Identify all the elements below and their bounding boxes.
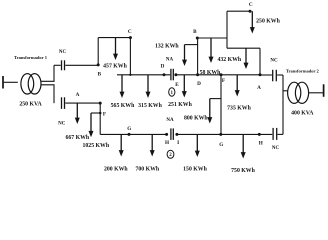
load arrow 700 KWh: [150, 134, 155, 156]
load arrow 565 KWh: [120, 75, 125, 98]
junction node A (middle bus right end): [259, 73, 262, 76]
junction node I: [175, 133, 178, 136]
wire fork upper from T1: [41, 65, 54, 81]
junction node H: [165, 133, 168, 136]
wire B up to top-left bus: [97, 38, 99, 65]
svg-text:F: F: [222, 78, 225, 84]
wire B down to middle bus: [197, 38, 199, 75]
load arrow 1025 KWh: [89, 113, 94, 137]
svg-text:150 KWh: 150 KWh: [183, 167, 207, 173]
svg-text:132 KWh: 132 KWh: [155, 44, 179, 50]
middle bus wire (net E to A): [176, 74, 260, 76]
svg-text:F: F: [103, 111, 106, 117]
wire NC to T2 vertical: [278, 133, 284, 135]
junction node G (F drop): [219, 133, 222, 136]
middle bus wire (net D): [117, 74, 170, 76]
svg-text:58 KWh: 58 KWh: [200, 70, 222, 76]
svg-text:667 KWh: 667 KWh: [65, 135, 89, 141]
top wire to node C: [227, 10, 250, 12]
load arrow 432 KWh: [244, 48, 249, 69]
wire input to transformer 1: [4, 81, 18, 83]
svg-text:NA: NA: [166, 58, 174, 63]
load arrow 667 KWh: [75, 103, 80, 124]
svg-text:D: D: [197, 81, 201, 87]
load arrow 58 KWh: [209, 38, 214, 63]
switch NA 1: [171, 69, 173, 81]
wire F down to bottom bus: [220, 75, 222, 135]
svg-text:750 KWh: 750 KWh: [231, 168, 255, 174]
wire to NC contact top: [54, 64, 61, 66]
switch NC (T1 lower feeder): [62, 97, 65, 109]
wire down to node A: [259, 48, 261, 75]
junction node B (top bus): [196, 37, 199, 40]
load arrow 735 KWh: [235, 75, 240, 97]
svg-text:457 KWh: 457 KWh: [103, 63, 127, 69]
switch NC (T2 upper): [273, 70, 277, 82]
tie switch circle 1: [169, 88, 175, 96]
svg-text:200 KWh: 200 KWh: [104, 167, 128, 173]
top-left bus wire: [98, 37, 131, 39]
transformer T1 (250 KVA): [21, 74, 41, 94]
source terminal T1: [2, 76, 4, 89]
junction node C (top right): [249, 10, 252, 13]
junction C on middle bus: [129, 74, 131, 76]
junction node E: [174, 73, 177, 76]
svg-text:Transformador 1: Transformador 1: [14, 55, 48, 60]
svg-text:400 KVA: 400 KVA: [291, 110, 314, 116]
junction node D (feeder B drop): [196, 73, 199, 76]
wire A to NC contact T2: [260, 74, 272, 76]
svg-text:1025 KWh: 1025 KWh: [83, 143, 110, 149]
svg-text:E: E: [175, 82, 179, 88]
svg-text:A: A: [257, 85, 261, 91]
svg-text:C: C: [249, 2, 253, 8]
svg-text:NC: NC: [270, 59, 278, 64]
load arrow 800 KWh: [207, 99, 212, 124]
svg-text:I: I: [177, 140, 179, 146]
svg-text:NC: NC: [272, 146, 280, 151]
svg-text:700 KWh: 700 KWh: [135, 167, 159, 173]
load arrow 250 KWh: [250, 11, 255, 33]
bottom-left bus G wire: [100, 133, 166, 135]
svg-text:565 KWh: 565 KWh: [111, 103, 135, 109]
bottom-right bus wire: [177, 133, 272, 135]
load arrow 150 KWh: [195, 134, 200, 157]
stub wire for 1025 KWh load: [91, 112, 100, 114]
svg-text:D: D: [161, 63, 165, 69]
junction node G: [128, 133, 131, 136]
svg-text:B: B: [98, 72, 102, 78]
svg-text:Transformador 2: Transformador 2: [286, 68, 320, 73]
svg-text:C: C: [128, 29, 132, 35]
junction stub F: [99, 112, 102, 115]
load arrow 200 KWh: [119, 134, 124, 156]
stub wire for 800 KWh load: [210, 98, 221, 100]
svg-text:A: A: [76, 92, 80, 98]
wire tap to transformer 2: [283, 90, 288, 92]
wire corner up right of B bus: [226, 11, 228, 48]
svg-text:250 KVA: 250 KVA: [19, 102, 42, 108]
svg-text:NA: NA: [166, 118, 174, 123]
junction A bus right end: [99, 102, 102, 105]
svg-text:H: H: [259, 140, 263, 146]
junction node F: [220, 73, 223, 76]
load arrow 251 KWh: [182, 75, 187, 98]
wire down to G bus: [99, 103, 101, 134]
svg-text:G: G: [219, 142, 223, 148]
svg-text:735 KWh: 735 KWh: [227, 106, 251, 112]
svg-text:G: G: [127, 126, 131, 132]
load arrow 457 KWh: [113, 38, 118, 60]
tie switch circle 2: [167, 150, 174, 158]
junction node C: [129, 36, 132, 39]
wire C down to middle bus: [129, 38, 131, 75]
junction node B: [97, 63, 100, 66]
svg-text:251 KWh: 251 KWh: [168, 102, 192, 108]
svg-text:H: H: [165, 140, 169, 146]
wire NC to node B: [65, 64, 98, 66]
wire NC to T2 drop: [277, 74, 283, 76]
load arrow 315 KWh: [146, 75, 151, 98]
load arrow 132 KWh: [182, 45, 187, 66]
wire NC to node A bus: [65, 102, 100, 104]
terminal T2: [323, 84, 325, 97]
svg-text:B: B: [193, 29, 197, 35]
switch NA 2: [171, 128, 173, 140]
svg-text:250 KWh: 250 KWh: [256, 18, 280, 24]
wire vertical T2 feeder: [282, 75, 284, 134]
svg-text:NC: NC: [59, 50, 67, 55]
junction node H (T2 feeder): [258, 133, 261, 136]
load arrow 750 KWh: [241, 134, 246, 158]
junction node D: [163, 73, 166, 76]
svg-text:NC: NC: [58, 122, 66, 127]
switch NC (T2 lower): [273, 128, 277, 140]
transformer T2 (400 KVA): [288, 82, 309, 103]
svg-text:432 KWh: 432 KWh: [217, 57, 241, 63]
switch NC (T1 upper feeder): [62, 60, 65, 70]
svg-text:800 KWh: 800 KWh: [184, 116, 208, 122]
wire T2 output: [309, 92, 324, 94]
wire to A drop: [227, 47, 260, 49]
svg-text:315 KWh: 315 KWh: [138, 103, 162, 109]
wire fork lower from T1: [41, 85, 54, 103]
stub wire for 132 KWh load: [185, 44, 198, 46]
top bus B wire: [197, 37, 227, 39]
